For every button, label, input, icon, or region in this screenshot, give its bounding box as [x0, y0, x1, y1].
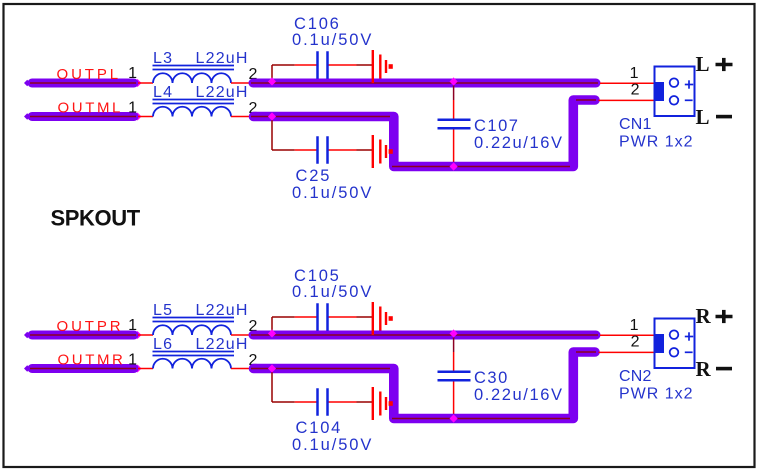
terminal label R+: [696, 304, 733, 328]
svg-text:OUTPR: OUTPR: [57, 318, 124, 335]
ground at C104: [373, 387, 393, 420]
pin number 2 of CN1: [631, 82, 640, 99]
terminal label L−: [696, 105, 733, 129]
svg-text:C25: C25: [296, 167, 332, 185]
junction OUTML / C107: [450, 162, 458, 170]
svg-text:L5: L5: [153, 302, 173, 319]
ground at C105: [373, 302, 393, 335]
svg-text:2: 2: [631, 82, 640, 99]
label C107 0.22u/16V: [474, 117, 564, 152]
svg-text:SPKOUT: SPKOUT: [51, 206, 141, 231]
wire OUTPR input trace: [24, 331, 142, 339]
svg-text:L4: L4: [153, 84, 173, 101]
junction OUTPL / C107: [450, 77, 458, 85]
wire C107 vertical: [453, 85, 455, 167]
capacitor C104: [318, 388, 328, 416]
label L4 L22uH: [153, 84, 249, 104]
svg-text:C104: C104: [296, 419, 343, 437]
pin number 1 of L5: [128, 317, 137, 334]
label CN1 PWR 1x2: [619, 116, 694, 151]
capacitor C30: [438, 372, 471, 381]
inductor L3: [138, 73, 249, 83]
wire C25 branch: [272, 120, 373, 150]
label C105 0.1u/50V: [292, 267, 373, 301]
svg-text:2: 2: [631, 334, 640, 351]
pin number 1 of L4: [128, 100, 137, 117]
label L6 L22uH: [153, 336, 249, 356]
wire to CN1 pin 1: [600, 82, 656, 84]
label CN2 PWR 1x2: [619, 368, 694, 403]
svg-text:C30: C30: [474, 369, 509, 387]
svg-text:L6: L6: [153, 336, 173, 353]
label L5 L22uH: [153, 302, 249, 322]
label C30 0.22u/16V: [474, 369, 564, 404]
ground at C25: [373, 135, 393, 168]
svg-text:C107: C107: [474, 117, 519, 135]
wire to CN1 pin 2: [599, 99, 657, 101]
svg-text:1: 1: [128, 100, 137, 117]
svg-text:L: L: [696, 105, 710, 129]
junction OUTMR / C104: [268, 364, 276, 372]
wire OUTML trace with jog to connector: [251, 100, 596, 167]
ground at C106: [373, 50, 393, 83]
net label OUTMR: [58, 352, 126, 369]
pin number 1 of L6: [128, 352, 137, 369]
svg-text:0.1u/50V: 0.1u/50V: [292, 436, 373, 454]
section label SPKOUT: [51, 206, 141, 231]
svg-text:CN1: CN1: [619, 116, 652, 133]
capacitor C107: [438, 120, 471, 129]
wire C105 branch: [272, 317, 373, 332]
svg-text:0.1u/50V: 0.1u/50V: [292, 184, 373, 202]
svg-text:0.22u/16V: 0.22u/16V: [474, 386, 564, 404]
svg-text:L22uH: L22uH: [196, 84, 249, 101]
svg-text:L22uH: L22uH: [196, 50, 249, 67]
svg-text:L22uH: L22uH: [196, 302, 249, 319]
inductor L4: [138, 107, 249, 117]
svg-text:L22uH: L22uH: [196, 336, 249, 353]
connector CN1: [654, 67, 695, 117]
pin number 2 of L4: [249, 100, 258, 117]
wire OUTPL input trace: [24, 79, 142, 87]
junction OUTPL / C106: [268, 77, 276, 85]
net label OUTPL: [57, 66, 122, 83]
svg-text:OUTML: OUTML: [58, 100, 124, 117]
pin number 2 of L6: [249, 352, 258, 369]
wire to CN2 pin 1: [600, 334, 656, 336]
svg-text:0.1u/50V: 0.1u/50V: [292, 283, 373, 301]
label L3 L22uH: [153, 50, 249, 70]
svg-text:OUTPL: OUTPL: [57, 66, 122, 83]
wire C30 vertical: [453, 337, 455, 419]
svg-text:1: 1: [128, 352, 137, 369]
svg-text:1: 1: [630, 65, 639, 82]
junction OUTMR / C30: [450, 414, 458, 422]
label C25 0.1u/50V: [292, 167, 373, 202]
wire OUTMR trace with jog to connector: [251, 352, 596, 419]
label C106 0.1u/50V: [292, 15, 373, 49]
inductor L5: [138, 325, 249, 335]
junction OUTPR / C30: [450, 329, 458, 337]
net label OUTML: [58, 100, 124, 117]
svg-text:1: 1: [128, 65, 137, 82]
capacitor C105: [318, 303, 328, 331]
junction OUTPR / C105: [268, 329, 276, 337]
wire OUTMR input trace: [24, 365, 142, 373]
connector CN2: [654, 319, 695, 369]
terminal label R−: [696, 357, 733, 381]
wire OUTPL trace to connector: [251, 79, 598, 88]
svg-text:L3: L3: [153, 50, 173, 67]
wire C104 branch: [272, 372, 373, 402]
junction OUTML / C25: [268, 112, 276, 120]
wire OUTML input trace: [24, 113, 142, 121]
pin number 2 of CN2: [631, 334, 640, 351]
pin number 1 of CN2: [630, 317, 639, 334]
pin number 2 of L3: [249, 66, 258, 83]
net label OUTPR: [57, 318, 124, 335]
wire to CN2 pin 2: [599, 351, 657, 353]
inductor L6: [138, 359, 249, 369]
svg-text:1: 1: [128, 317, 137, 334]
svg-text:PWR 1x2: PWR 1x2: [619, 386, 694, 403]
svg-text:R: R: [696, 357, 712, 381]
capacitor C25: [318, 136, 328, 164]
wire C106 branch: [272, 65, 373, 80]
pin number 1 of L3: [128, 65, 137, 82]
pin number 1 of CN1: [630, 65, 639, 82]
pin number 2 of L5: [249, 318, 258, 335]
terminal label L+: [696, 52, 733, 76]
label C104 0.1u/50V: [292, 419, 373, 454]
svg-text:1: 1: [630, 317, 639, 334]
wire OUTPR trace to connector: [251, 331, 598, 340]
svg-text:0.22u/16V: 0.22u/16V: [474, 134, 564, 152]
svg-text:CN2: CN2: [619, 368, 652, 385]
capacitor C106: [318, 51, 328, 79]
svg-text:0.1u/50V: 0.1u/50V: [292, 31, 373, 49]
svg-text:PWR 1x2: PWR 1x2: [619, 134, 694, 151]
svg-text:OUTMR: OUTMR: [58, 352, 126, 369]
svg-text:R: R: [696, 304, 712, 328]
svg-text:L: L: [696, 52, 710, 76]
